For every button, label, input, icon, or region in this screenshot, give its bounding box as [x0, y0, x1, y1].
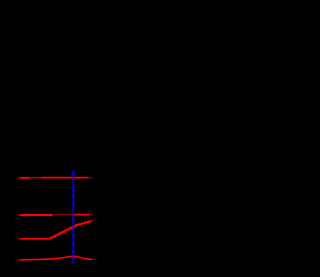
trace V3 right fade tail: [91, 220, 94, 222]
cursor marker dot 5: [72, 219, 75, 222]
cursor marker dot 8: [72, 243, 75, 246]
trace V1 ripple burst dashes: [30, 177, 41, 179]
cursor marker dot 4: [72, 202, 74, 205]
cursor marker dot 7: [72, 235, 75, 238]
trace V1 (top red trace, flat): [20, 177, 89, 179]
trace V2 right bright segment: [74, 214, 89, 216]
trace V3 (ramp red trace): [20, 221, 92, 239]
trace V2 right fade tail: [89, 214, 93, 216]
cursor marker dot 6: [72, 228, 74, 230]
trace V4 left fade-in: [18, 259, 20, 261]
trace V1 right fade tail: [89, 177, 94, 179]
cursor marker dot 2: [72, 189, 75, 192]
cursor marker dot 9: [72, 251, 75, 254]
cursor (vertical blue marker line): [72, 170, 74, 264]
trace V4 (bottom red trace with bump): [20, 256, 92, 260]
trace V1 ripple burst base: [30, 177, 42, 179]
trace V2 left fade-in: [18, 214, 20, 216]
trace V4 right fade tail: [92, 258, 96, 260]
trace V1 left fade-in: [18, 177, 20, 179]
trace V3 left fade-in: [18, 238, 20, 240]
cursor marker dot 10: [72, 258, 74, 260]
cursor marker dot 1: [72, 172, 75, 175]
cursor marker dot 3: [72, 195, 75, 198]
trace V2 dimmer middle segment: [53, 213, 75, 215]
trace V2 (second red trace, flat): [20, 214, 53, 216]
